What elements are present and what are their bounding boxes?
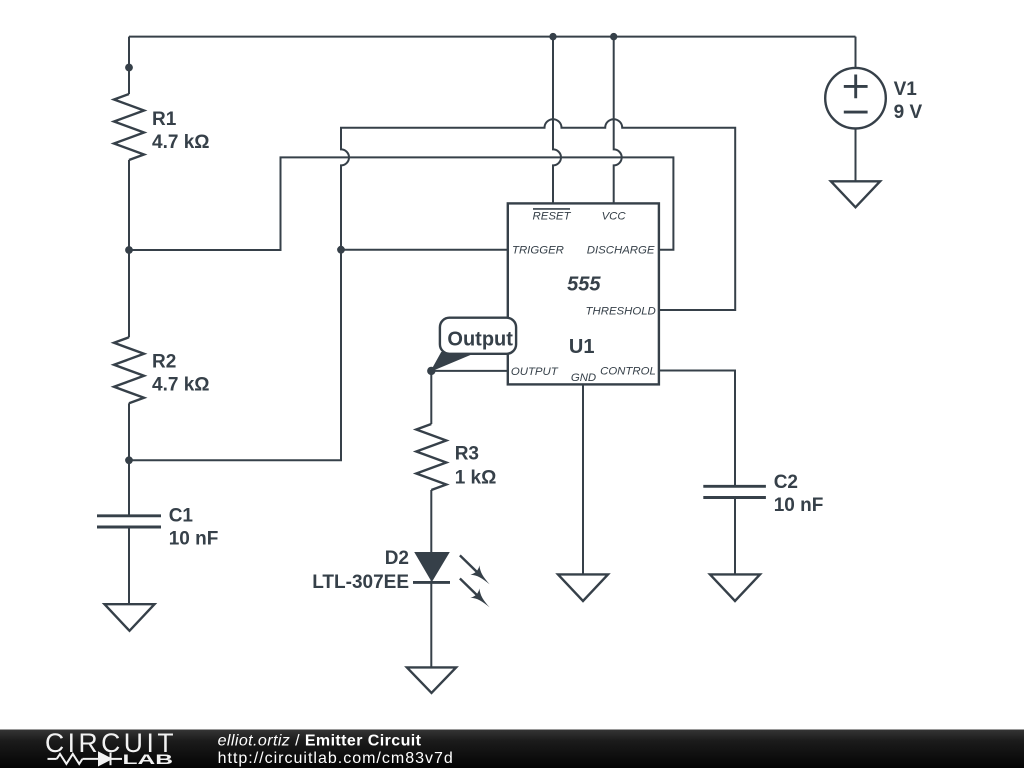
- wire node A to DISCHARGE: [129, 157, 673, 250]
- ground (V1): [831, 181, 880, 207]
- node rail VCC tap: [610, 33, 617, 40]
- svg-text:THRESHOLD: THRESHOLD: [586, 306, 656, 318]
- svg-text:elliot.ortiz / Emitter Circuit: elliot.ortiz / Emitter Circuit: [218, 732, 422, 749]
- svg-text:RESET: RESET: [533, 211, 572, 223]
- svg-text:1 kΩ: 1 kΩ: [455, 468, 497, 489]
- LED light arrow 1: [455, 551, 494, 589]
- node B (R2/C1 junction): [125, 456, 133, 464]
- svg-text:R1: R1: [152, 109, 177, 130]
- footer bar: [0, 730, 1024, 768]
- svg-text:U1: U1: [569, 336, 595, 358]
- wire V1 to ground: [855, 129, 857, 182]
- capacitor C2: [703, 486, 766, 497]
- wire node B to C1: [128, 460, 130, 515]
- flag Output pointer tail: [431, 353, 472, 371]
- overline RESET: [533, 208, 570, 210]
- node A (R1/R2 junction): [125, 246, 133, 254]
- wire C2 to ground: [734, 498, 736, 574]
- svg-text:555: 555: [567, 274, 601, 296]
- node rail RESET tap: [549, 33, 556, 40]
- svg-text:LAB: LAB: [123, 751, 174, 767]
- ground (C1): [105, 604, 155, 631]
- capacitor C1: [97, 516, 161, 527]
- wire output node to R3: [430, 371, 432, 424]
- wire rail to RESET (hops net A): [553, 37, 561, 204]
- ground (D2): [407, 667, 456, 693]
- logo resistor-diode glyph: [48, 753, 123, 766]
- wire node B to trigger node: [129, 250, 341, 461]
- wire rail down to R1: [128, 37, 130, 94]
- svg-text:4.7 kΩ: 4.7 kΩ: [152, 132, 210, 153]
- V1 minus sign: [844, 111, 868, 114]
- node R1 top terminal: [125, 64, 133, 72]
- wire D2 to ground: [430, 581, 432, 668]
- V1 plus sign: [844, 75, 868, 99]
- svg-text:VCC: VCC: [602, 211, 627, 223]
- svg-text:D2: D2: [385, 548, 409, 569]
- svg-text:9 V: 9 V: [894, 102, 923, 123]
- wire rail to V1: [855, 37, 857, 68]
- svg-text:GND: GND: [571, 372, 596, 384]
- node trigger junction: [337, 246, 345, 254]
- wire node A to R2: [128, 250, 130, 337]
- wire C1 to ground: [128, 528, 130, 605]
- node output: [427, 367, 435, 375]
- LED D2 triangle: [416, 553, 449, 581]
- svg-text:R3: R3: [455, 444, 479, 465]
- wire trigger node to THRESHOLD (with hops): [341, 119, 735, 310]
- svg-text:DISCHARGE: DISCHARGE: [587, 244, 655, 256]
- wire GND pin to ground: [582, 384, 584, 574]
- svg-text:10 nF: 10 nF: [774, 495, 824, 516]
- svg-text:Output: Output: [447, 328, 513, 350]
- resistor R1: [114, 94, 144, 160]
- wire rail to VCC (hops net A): [614, 37, 622, 204]
- svg-text:4.7 kΩ: 4.7 kΩ: [152, 375, 210, 396]
- ground (C2): [710, 574, 760, 601]
- LED D2 cathode bar: [413, 581, 450, 584]
- svg-text:http://circuitlab.com/cm83v7d: http://circuitlab.com/cm83v7d: [218, 750, 454, 767]
- wire R2 to node B: [128, 403, 130, 460]
- ground (U1 GND): [558, 574, 608, 601]
- wire R3 to D2: [430, 490, 432, 553]
- wire R1 to node A: [128, 160, 130, 250]
- wire TRIGGER: [341, 249, 508, 251]
- svg-text:10 nF: 10 nF: [169, 529, 219, 550]
- svg-text:R2: R2: [152, 351, 176, 372]
- voltage source V1 circle: [825, 68, 886, 129]
- wire CONTROL to C2: [659, 371, 735, 486]
- op-amp U1 555 timer box: [508, 203, 659, 384]
- svg-text:V1: V1: [894, 79, 918, 100]
- svg-text:C1: C1: [169, 506, 194, 527]
- resistor R3: [416, 424, 446, 490]
- svg-text:LTL-307EE: LTL-307EE: [312, 572, 409, 593]
- resistor R2: [114, 337, 144, 403]
- svg-text:CONTROL: CONTROL: [600, 366, 656, 378]
- svg-text:OUTPUT: OUTPUT: [511, 366, 559, 378]
- wire OUTPUT pin to node: [431, 370, 508, 372]
- wire top supply rail: [129, 36, 856, 38]
- flag Output box: [440, 318, 516, 354]
- svg-text:TRIGGER: TRIGGER: [512, 244, 564, 256]
- svg-text:C2: C2: [774, 472, 798, 493]
- LED light arrow 2: [455, 574, 494, 612]
